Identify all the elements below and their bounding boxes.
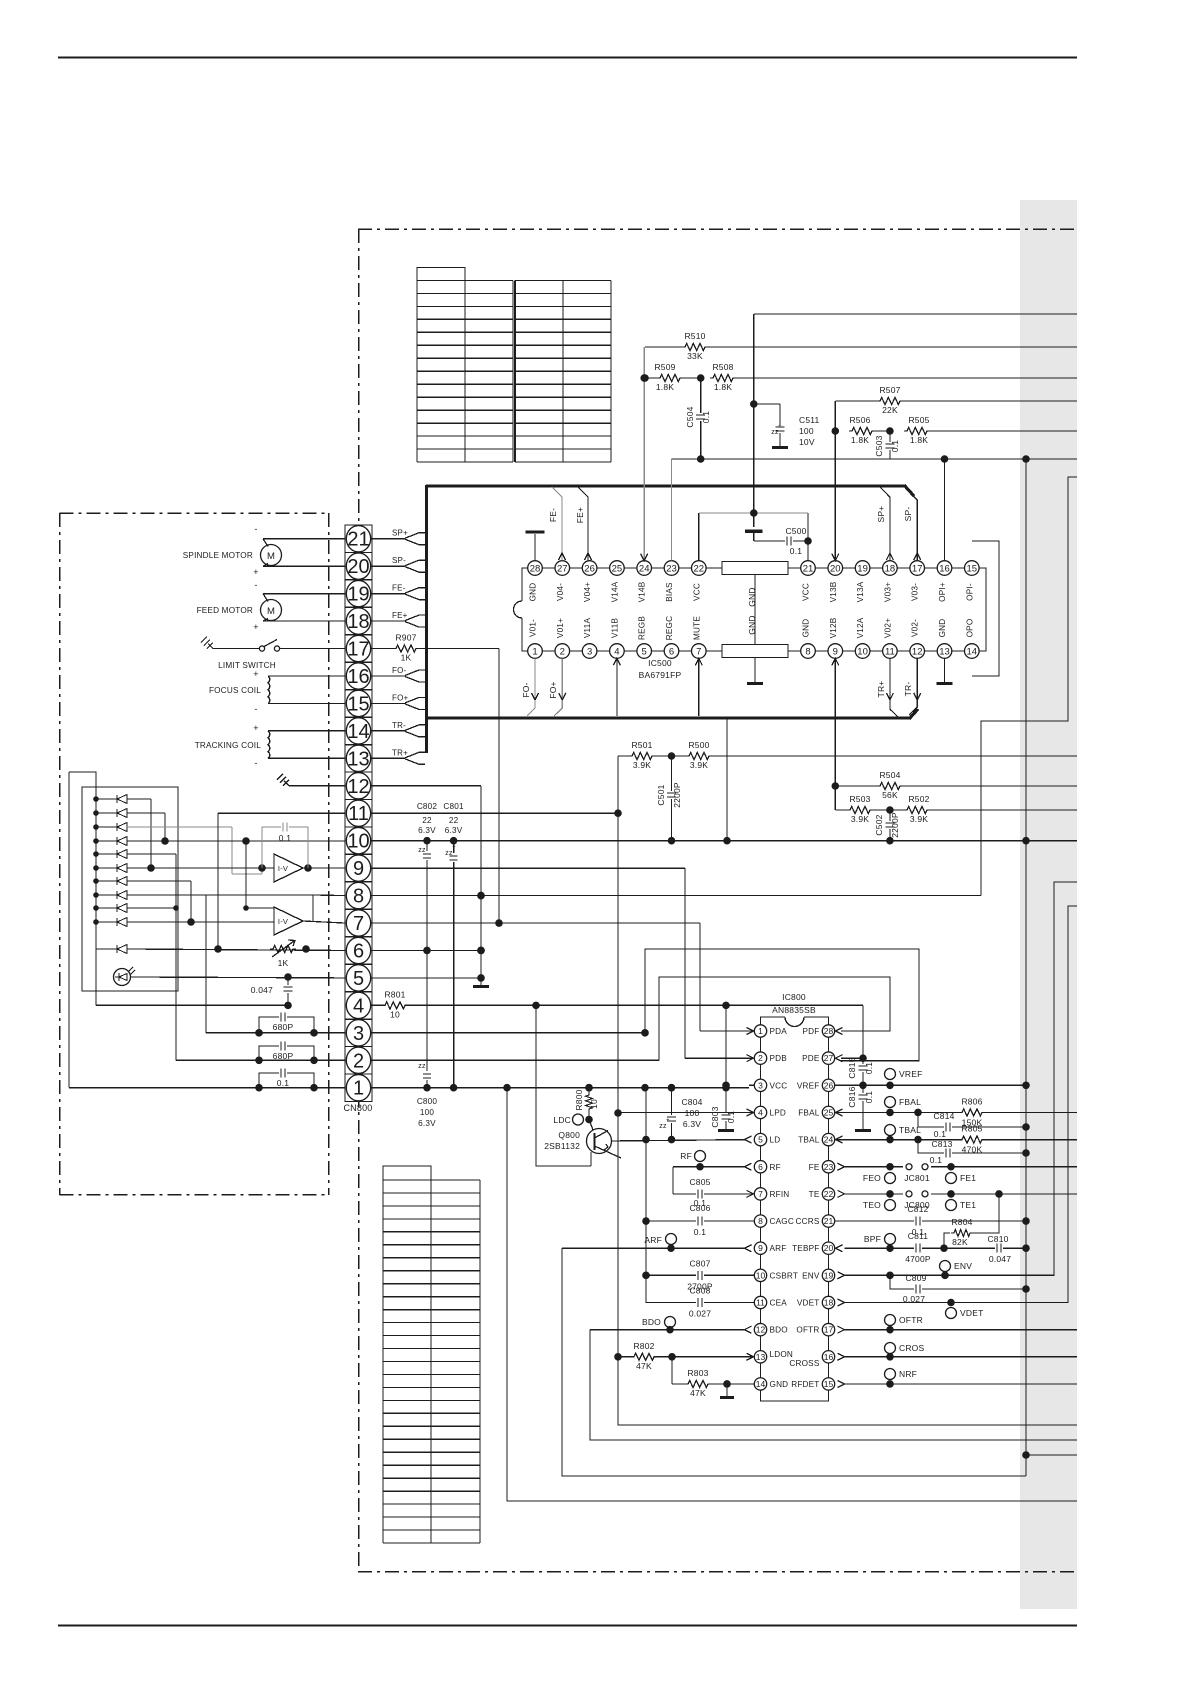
transistor Q800 — [544, 1120, 621, 1167]
svg-text:C805: C805 — [689, 1177, 710, 1187]
svg-text:BPF: BPF — [864, 1234, 881, 1244]
resistor R506 — [849, 415, 890, 445]
anode bus feed — [69, 772, 96, 787]
svg-text:VCC: VCC — [802, 583, 811, 601]
resistor R509 — [641, 362, 701, 392]
svg-text:BDO: BDO — [642, 1317, 661, 1327]
svg-text:TBAL: TBAL — [798, 1136, 820, 1145]
svg-text:100: 100 — [685, 1108, 700, 1118]
svg-text:3.9K: 3.9K — [690, 760, 708, 770]
wire BDO row — [590, 1330, 1077, 1440]
svg-text:GND: GND — [802, 619, 811, 638]
svg-text:V03+: V03+ — [883, 582, 892, 602]
wire loop drop right — [862, 1005, 864, 1060]
outer dash-dot border top — [358, 228, 1077, 230]
capacitor C816 — [847, 1082, 874, 1133]
svg-text:22: 22 — [694, 563, 705, 574]
svg-text:24: 24 — [639, 563, 650, 574]
parts list table (bottom) — [383, 1166, 480, 1543]
servo DSP IC800 body — [761, 1017, 829, 1401]
svg-text:1.8K: 1.8K — [714, 382, 732, 392]
IC500 pin circles — [528, 561, 979, 659]
svg-text:13: 13 — [939, 646, 950, 657]
tracking coil — [195, 723, 345, 768]
terminal RF — [680, 1151, 705, 1171]
svg-text:AN8835SB: AN8835SB — [772, 1005, 816, 1015]
wire pin3 left — [206, 895, 345, 1033]
wire TE row — [845, 1190, 1078, 1198]
resistor R502 — [886, 794, 1077, 824]
svg-text:R502: R502 — [908, 794, 929, 804]
wire RFDET row — [845, 1383, 1078, 1385]
svg-text:14: 14 — [756, 1379, 766, 1389]
svg-text:2200P: 2200P — [890, 812, 900, 838]
svg-text:RFDET: RFDET — [791, 1380, 819, 1389]
svg-text:FE1: FE1 — [960, 1173, 976, 1183]
svg-text:GND: GND — [938, 619, 947, 638]
photodiode array box — [82, 787, 178, 991]
net label SP+ — [392, 529, 408, 538]
svg-text:VREF: VREF — [899, 1069, 922, 1079]
svg-text:RF: RF — [770, 1163, 781, 1172]
svg-text:FO+: FO+ — [392, 693, 409, 702]
svg-text:21: 21 — [347, 529, 369, 551]
capacitor C806 — [646, 1203, 754, 1237]
svg-text:FE+: FE+ — [575, 507, 585, 523]
capacitor C800 — [417, 950, 438, 1128]
resistor R800 — [574, 1084, 599, 1123]
wire SP+ (bus to pin18) — [876, 487, 893, 561]
wire LPD drop — [536, 1005, 591, 1166]
svg-text:-: - — [254, 524, 257, 534]
svg-text:+: + — [425, 842, 429, 848]
svg-text:V11B: V11B — [610, 618, 619, 639]
svg-text:0.1: 0.1 — [864, 1062, 874, 1074]
terminal LDC — [553, 1114, 583, 1125]
svg-text:SP-: SP- — [903, 507, 913, 522]
svg-text:11: 11 — [885, 646, 895, 657]
monitor diode D11 — [96, 945, 127, 954]
svg-text:BDO: BDO — [770, 1326, 788, 1335]
svg-text:CSBRT: CSBRT — [770, 1271, 799, 1280]
svg-text:VCC: VCC — [770, 1081, 788, 1090]
wire CN800 pin7 to IC800 pin1 — [371, 923, 700, 1031]
svg-text:GND: GND — [529, 583, 538, 602]
svg-text:VDET: VDET — [797, 1299, 820, 1308]
svg-text:22K: 22K — [882, 405, 898, 415]
svg-text:zz: zz — [771, 429, 779, 436]
wire ARF return — [562, 1248, 1026, 1476]
svg-text:V12A: V12A — [856, 617, 865, 638]
svg-text:10: 10 — [857, 646, 868, 657]
wire IC800 pin4 feed — [618, 1111, 754, 1113]
wire CN800 pin12 row — [371, 786, 485, 978]
svg-text:5: 5 — [353, 968, 364, 990]
wire pin8 left — [313, 894, 345, 897]
svg-text:OFTR: OFTR — [796, 1326, 819, 1335]
terminal ARF — [644, 1234, 676, 1252]
svg-text:22: 22 — [422, 816, 432, 825]
wire pin2 left — [176, 908, 345, 1060]
IC500 internal GND pillars — [722, 562, 788, 686]
svg-text:-: - — [254, 704, 257, 714]
node VCC loop over C500 — [699, 509, 808, 517]
svg-text:JC801: JC801 — [904, 1173, 930, 1183]
svg-text:V01+: V01+ — [556, 618, 565, 638]
wire FE+ (bus to pin26) — [575, 487, 592, 561]
svg-text:C500: C500 — [785, 526, 806, 536]
IC800 pin circles and names — [754, 1025, 834, 1390]
op-amp IV2 — [274, 907, 303, 935]
svg-text:3.9K: 3.9K — [633, 760, 651, 770]
net label FO+ — [392, 693, 409, 702]
svg-text:17: 17 — [824, 1325, 834, 1335]
svg-text:2: 2 — [353, 1050, 364, 1072]
svg-text:OPI-: OPI- — [965, 583, 974, 601]
IC800 reference label — [772, 992, 816, 1015]
svg-text:FOCUS COIL: FOCUS COIL — [209, 686, 261, 695]
svg-text:REGB: REGB — [638, 616, 647, 640]
wire row 868 (amp1 in / pin9 left) — [127, 864, 274, 872]
resistor R501 — [629, 740, 672, 770]
resistor R508 — [697, 362, 1077, 392]
svg-text:TRACKING COIL: TRACKING COIL — [195, 741, 262, 750]
svg-text:56K: 56K — [882, 790, 898, 800]
svg-text:CROSS: CROSS — [789, 1359, 819, 1368]
svg-text:11: 11 — [348, 803, 369, 825]
svg-text:V12B: V12B — [829, 617, 838, 638]
svg-text:M: M — [267, 551, 275, 562]
svg-text:C511: C511 — [799, 415, 820, 425]
svg-text:14: 14 — [967, 646, 978, 657]
svg-text:R907: R907 — [395, 633, 416, 643]
svg-text:3.9K: 3.9K — [910, 814, 928, 824]
terminal BDO — [642, 1317, 676, 1334]
svg-text:24: 24 — [824, 1135, 834, 1145]
capacitor C500 — [745, 513, 808, 556]
connector CN800 housing — [345, 525, 372, 1101]
capacitor C511 — [754, 404, 820, 449]
svg-text:CAGC: CAGC — [770, 1217, 794, 1226]
svg-text:1K: 1K — [401, 653, 412, 663]
svg-text:R802: R802 — [633, 1341, 654, 1351]
svg-text:FE-: FE- — [548, 508, 558, 522]
svg-text:ENV: ENV — [802, 1271, 820, 1280]
resistor R510 — [645, 331, 1077, 361]
svg-text:C503: C503 — [874, 435, 884, 456]
svg-text:8: 8 — [758, 1216, 763, 1226]
net label FE+ — [392, 611, 408, 620]
svg-text:14: 14 — [347, 721, 369, 743]
wire amp2 feedback — [243, 841, 274, 911]
svg-text:4: 4 — [353, 995, 364, 1017]
svg-text:R503: R503 — [849, 794, 870, 804]
wire CN800 pin3 to IC800 pin27 — [371, 949, 919, 1061]
svg-text:FE+: FE+ — [392, 611, 408, 620]
capacitor 0.1 feedback — [262, 823, 308, 869]
svg-text:V04-: V04- — [556, 583, 565, 601]
wire x646 riser — [642, 1088, 650, 1303]
svg-text:+: + — [253, 567, 258, 577]
svg-text:C811: C811 — [908, 1231, 929, 1241]
wire V12B (pin9 to R504 net) — [832, 658, 839, 786]
svg-text:4700P: 4700P — [905, 1254, 931, 1264]
svg-text:100: 100 — [799, 426, 814, 436]
svg-text:R504: R504 — [879, 770, 900, 780]
servo bus outline top — [426, 485, 914, 496]
svg-text:7: 7 — [696, 646, 701, 657]
wire pin13 return — [618, 1357, 1077, 1425]
terminal OFTR — [885, 1315, 923, 1334]
svg-text:3.9K: 3.9K — [851, 814, 869, 824]
svg-text:18: 18 — [885, 563, 896, 574]
svg-text:0.1: 0.1 — [890, 440, 900, 452]
svg-text:TE1: TE1 — [960, 1200, 976, 1210]
svg-text:18: 18 — [347, 611, 369, 633]
svg-text:13: 13 — [756, 1352, 766, 1362]
focus coil — [209, 669, 345, 714]
svg-text:V13A: V13A — [856, 581, 865, 602]
svg-text:+: + — [425, 1058, 429, 1064]
svg-text:R801: R801 — [384, 989, 405, 999]
svg-text:C810: C810 — [987, 1234, 1008, 1244]
pickup-unit dash-dot box — [60, 513, 330, 1195]
capacitor C801 — [443, 802, 464, 1092]
svg-text:11: 11 — [756, 1298, 765, 1308]
wire row 895 (pin8 left) — [127, 895, 313, 921]
wire LED row (pin5 left) — [130, 973, 345, 981]
IC800 left pin arrows — [745, 1028, 754, 1361]
svg-text:6.3V: 6.3V — [445, 826, 463, 835]
svg-text:680P: 680P — [273, 1051, 294, 1061]
wire TR+ (pin11 to bus) — [876, 658, 898, 717]
net label FO- — [392, 666, 407, 675]
svg-text:ARF: ARF — [644, 1235, 662, 1245]
svg-text:6.3V: 6.3V — [418, 826, 436, 835]
capacitor C503 — [874, 431, 900, 459]
wire CN800 pin2 to IC800 pin28 — [371, 977, 890, 1060]
svg-text:0.1: 0.1 — [701, 411, 711, 423]
svg-text:21: 21 — [824, 1216, 834, 1226]
svg-text:TR+: TR+ — [876, 681, 886, 698]
svg-text:0.1: 0.1 — [694, 1227, 706, 1237]
wire V13B (R506 net to pin20) — [832, 431, 839, 561]
outer dash-dot border left — [358, 229, 360, 1572]
wire R504-R503 riser — [834, 786, 836, 810]
wire IC800 pin1 feed — [700, 1030, 754, 1032]
svg-text:1.8K: 1.8K — [656, 382, 674, 392]
svg-text:FEED MOTOR: FEED MOTOR — [197, 606, 253, 615]
capacitor C808 — [646, 1275, 754, 1318]
svg-text:20: 20 — [347, 556, 369, 578]
wire riser d — [127, 881, 194, 925]
svg-text:OPO: OPO — [965, 619, 974, 638]
wire row 827 — [127, 827, 262, 874]
ground at R803 — [720, 1384, 734, 1399]
svg-text:R803: R803 — [687, 1368, 708, 1378]
wire LD row — [611, 1136, 745, 1144]
photodiode array D1-D10 — [93, 795, 127, 927]
terminal ENV — [940, 1261, 973, 1280]
svg-text:BIAS: BIAS — [665, 582, 674, 602]
grey page-fold band — [1020, 200, 1077, 1609]
svg-text:CEA: CEA — [770, 1299, 788, 1308]
svg-text:RF: RF — [680, 1151, 692, 1161]
resistor R803 — [672, 1357, 754, 1398]
svg-text:GND: GND — [770, 1380, 789, 1389]
IC500 reference label — [639, 658, 682, 680]
svg-text:zz: zz — [659, 1123, 667, 1130]
wire FE row — [845, 1163, 1078, 1171]
wire spindle to pins 21/20 — [263, 539, 345, 566]
svg-text:1.8K: 1.8K — [851, 435, 869, 445]
svg-text:C814: C814 — [933, 1111, 954, 1121]
svg-text:FBAL: FBAL — [798, 1108, 820, 1117]
svg-text:4: 4 — [614, 646, 619, 657]
wire riser c — [127, 854, 179, 911]
svg-text:RFIN: RFIN — [770, 1190, 790, 1199]
svg-text:12: 12 — [347, 776, 369, 798]
IC800 right pin arrows — [836, 1028, 845, 1388]
svg-text:33K: 33K — [687, 351, 703, 361]
svg-text:25: 25 — [612, 563, 623, 574]
motor label SPINDLE MOTOR — [183, 551, 253, 560]
wire pin4 riser — [613, 658, 620, 716]
wire pin7 MUTE riser — [695, 658, 702, 716]
node OPO loop — [972, 541, 999, 676]
svg-text:28: 28 — [824, 1026, 834, 1036]
wire FO+ (pin2 to bus) — [548, 658, 566, 716]
svg-text:TBAL: TBAL — [899, 1125, 921, 1135]
svg-text:C803: C803 — [710, 1106, 720, 1127]
svg-text:19: 19 — [857, 563, 868, 574]
svg-text:FE-: FE- — [392, 584, 406, 593]
capacitor C807 — [646, 1258, 754, 1291]
wire SP- (bus to pin17) — [903, 490, 921, 561]
connector CN800 pins 21-1 — [346, 526, 370, 1101]
svg-text:V13B: V13B — [829, 581, 838, 602]
svg-text:R506: R506 — [849, 415, 870, 425]
svg-text:0.1: 0.1 — [790, 546, 802, 556]
svg-text:22: 22 — [449, 816, 459, 825]
svg-text:R508: R508 — [712, 362, 733, 372]
svg-text:16: 16 — [939, 563, 950, 574]
wire amp1 out — [303, 864, 345, 872]
resistor R505 — [886, 415, 1077, 445]
net label SP- — [392, 556, 406, 565]
svg-text:10: 10 — [347, 831, 369, 853]
svg-text:0.1: 0.1 — [930, 1155, 942, 1165]
svg-text:15: 15 — [967, 563, 978, 574]
svg-text:C804: C804 — [681, 1097, 702, 1107]
svg-text:6.3V: 6.3V — [683, 1119, 701, 1129]
wire pin13 GND stub — [937, 658, 953, 685]
resistor R804 — [944, 1194, 999, 1248]
svg-text:C504: C504 — [685, 406, 695, 427]
svg-text:23: 23 — [824, 1162, 834, 1172]
svg-text:FE: FE — [809, 1163, 820, 1172]
capacitor C813 — [918, 1139, 1030, 1165]
outer dash-dot border bottom — [358, 1571, 1077, 1573]
svg-text:10: 10 — [589, 1099, 599, 1109]
svg-text:C501: C501 — [656, 784, 666, 805]
wire R507-R506 riser — [832, 401, 840, 435]
svg-text:PDF: PDF — [803, 1027, 820, 1036]
svg-text:8: 8 — [805, 646, 810, 657]
parts list table (top) — [417, 268, 611, 463]
svg-text:20: 20 — [830, 563, 841, 574]
capacitor C501 — [656, 756, 682, 841]
wire R501 row — [618, 755, 630, 757]
svg-text:TR+: TR+ — [392, 748, 408, 757]
svg-text:R507: R507 — [879, 385, 900, 395]
svg-text:6: 6 — [353, 940, 364, 962]
svg-text:1: 1 — [532, 646, 537, 657]
capacitor C504 — [685, 378, 711, 459]
wire bus line A — [1022, 455, 1077, 1476]
svg-text:17: 17 — [347, 639, 369, 661]
svg-text:15: 15 — [824, 1379, 834, 1389]
wire riser b — [127, 813, 169, 845]
svg-text:0.1: 0.1 — [279, 833, 291, 843]
spindle motor M1 — [253, 524, 281, 577]
svg-text:21: 21 — [803, 563, 814, 574]
svg-text:19: 19 — [824, 1270, 834, 1280]
svg-text:IC800: IC800 — [782, 992, 806, 1002]
wire pin22 VCC riser — [698, 513, 700, 561]
svg-text:FEO: FEO — [863, 1173, 881, 1183]
svg-text:6: 6 — [669, 646, 674, 657]
capacitor C809 — [890, 1273, 1030, 1304]
wire RF row — [673, 1167, 745, 1194]
resistor R500 — [668, 740, 1077, 770]
capacitor 0.047 — [251, 977, 293, 1009]
svg-text:TEO: TEO — [863, 1200, 881, 1210]
wire amp2 out — [303, 921, 345, 923]
svg-text:+: + — [778, 424, 782, 430]
svg-text:LDON: LDON — [770, 1350, 794, 1359]
wire row 458 (BIAS net) — [672, 455, 1078, 463]
svg-text:R501: R501 — [631, 740, 652, 750]
svg-text:0.1: 0.1 — [934, 1129, 946, 1139]
net label TR- — [392, 721, 406, 730]
svg-text:CCRS: CCRS — [796, 1217, 820, 1226]
svg-text:0.1: 0.1 — [277, 1078, 289, 1088]
svg-text:V14A: V14A — [610, 581, 619, 602]
svg-text:zz: zz — [418, 1063, 426, 1070]
svg-text:SP+: SP+ — [876, 506, 886, 523]
svg-text:VDET: VDET — [960, 1308, 983, 1318]
svg-text:CN800: CN800 — [343, 1103, 372, 1113]
svg-text:3: 3 — [758, 1080, 763, 1090]
capacitor C812 — [835, 1204, 1030, 1237]
svg-text:LIMIT SWITCH: LIMIT SWITCH — [218, 661, 276, 670]
svg-text:TEBPF: TEBPF — [792, 1244, 819, 1253]
svg-text:-: - — [254, 580, 257, 590]
resistor R507 — [835, 385, 1077, 415]
bus entry flares from CN800 — [371, 533, 425, 765]
svg-text:R800: R800 — [574, 1089, 584, 1110]
wire FO- (pin1 to bus) — [521, 658, 539, 716]
resistor R504 — [832, 770, 1078, 800]
resistor R503 — [835, 794, 890, 824]
svg-text:FO-: FO- — [521, 682, 531, 697]
jumper JC800 — [904, 1191, 930, 1210]
svg-text:+: + — [253, 669, 258, 679]
svg-text:0.027: 0.027 — [689, 1309, 711, 1319]
limit switch — [201, 637, 345, 670]
svg-text:CROS: CROS — [899, 1343, 924, 1353]
